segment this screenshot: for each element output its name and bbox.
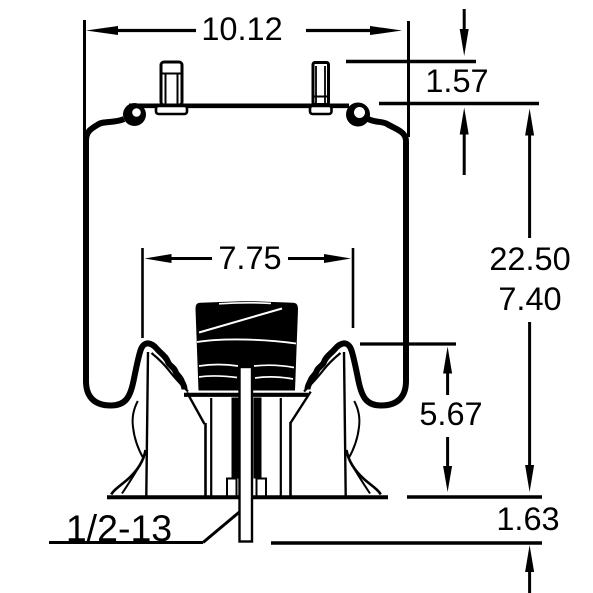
dimension 22.50/7.40 up arrow and line	[525, 109, 534, 239]
svg-text:7.75: 7.75	[218, 240, 281, 276]
dimension 1.57 down arrow	[460, 9, 469, 56]
piston top plate line	[184, 393, 308, 397]
dimension 1.57 lower reference line (plate top plane)	[379, 102, 539, 106]
bellows left wall and rolling lobe	[86, 119, 185, 406]
dimension 7.75 line with arrows	[145, 254, 352, 263]
dimension landing line at piston base plane	[407, 495, 542, 499]
piston left wall	[146, 352, 148, 496]
svg-text:10.12: 10.12	[201, 11, 282, 47]
piston right skirt bow line	[348, 401, 359, 459]
thread callout leader line	[49, 509, 243, 543]
left mounting stud	[156, 62, 187, 114]
dimension 7.75 left extension line	[141, 248, 144, 338]
piston left skirt bow line	[133, 401, 144, 459]
right mounting stud	[310, 63, 332, 115]
piston right foot block	[257, 479, 267, 497]
piston right gusset diagonal	[291, 392, 311, 423]
dimension 1.63 up arrow	[525, 545, 534, 593]
svg-text:7.40: 7.40	[498, 281, 561, 317]
svg-text:5.67: 5.67	[419, 396, 482, 432]
piston right rim line under lobe	[304, 353, 341, 392]
svg-text:1.63: 1.63	[496, 501, 559, 537]
piston right skirt flare	[347, 450, 381, 495]
mounting bolt	[240, 367, 253, 542]
svg-text:22.50: 22.50	[489, 241, 570, 277]
bolt end reference line	[271, 541, 542, 545]
dimension 1.57 up arrow	[460, 108, 469, 176]
piston right rib channel	[281, 398, 291, 496]
svg-text:1.57: 1.57	[425, 63, 488, 99]
piston left rim line under lobe	[152, 353, 189, 392]
dimension 1.57 upper reference line (stud top plane)	[346, 60, 476, 64]
piston central tube bars	[232, 398, 262, 479]
piston left gusset diagonal	[187, 392, 205, 424]
right bead roll	[346, 103, 370, 127]
piston base line	[107, 495, 388, 499]
dimension 10.12 right extension line	[407, 21, 410, 137]
piston left foot block	[227, 479, 237, 497]
left bead roll	[123, 103, 146, 126]
dimension 10.12 left extension line	[83, 20, 86, 140]
piston left rib channel	[206, 398, 212, 496]
rubber bumper (solid)	[196, 301, 299, 390]
dimension 5.67 reference line (piston top plane)	[360, 342, 456, 345]
dimension 10.12 line with arrows	[86, 26, 402, 35]
dimension 7.75 right extension line	[352, 248, 355, 328]
dimension 5.67 up arrow	[443, 347, 452, 396]
bellows right wall and rolling lobe	[308, 119, 407, 406]
dimension 22.50/7.40 down arrow and line	[525, 322, 534, 492]
top plate	[129, 104, 349, 109]
piston left skirt flare	[111, 450, 145, 495]
dimension 5.67 down arrow	[443, 437, 452, 492]
piston right wall	[344, 352, 346, 496]
